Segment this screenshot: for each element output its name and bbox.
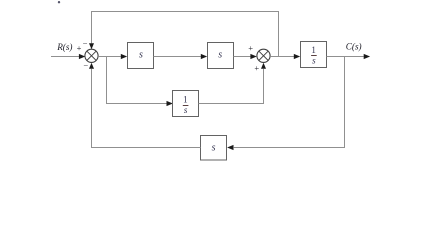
svg-text:1: 1 <box>311 45 316 55</box>
svg-text:s: s <box>184 105 188 115</box>
svg-text:+: + <box>248 43 253 53</box>
svg-text:1: 1 <box>183 95 188 105</box>
wire: input R(s) to summer S1 <box>51 56 79 58</box>
svg-text:−: − <box>83 38 88 48</box>
block H2: s (bottom feedback) <box>201 136 227 161</box>
wire: H2 output left then up into summer S1 bottom <box>92 69 201 148</box>
arrow into S1 from top <box>89 43 94 49</box>
wire: output pickoff down and left into block H2 <box>234 57 345 148</box>
stray dot (cropped glyph) top left <box>58 1 60 3</box>
block G2: s <box>208 43 234 69</box>
svg-text:R(s): R(s) <box>56 42 72 52</box>
svg-text:s: s <box>312 56 316 66</box>
summing junction S2 <box>257 49 270 62</box>
svg-text:s: s <box>139 50 143 61</box>
wire: summer S1 output to block G1 <box>98 56 121 58</box>
wire: top feedback run (pickoff after S2 up, left, down into S1) <box>92 12 279 57</box>
wire: summer S2 output to block G3 <box>270 56 294 58</box>
svg-text:+: + <box>254 63 259 73</box>
wire: G2 to summer S2 <box>234 56 251 58</box>
svg-text:+: + <box>77 43 82 53</box>
block H1: 1/s (middle path) <box>173 91 199 117</box>
block G3: 1/s <box>301 42 327 68</box>
svg-text:C(s): C(s) <box>346 41 362 51</box>
block G1: s <box>128 43 154 69</box>
svg-text:−: − <box>83 61 88 71</box>
wire: H1 output right then up into summer S2 <box>199 69 264 104</box>
svg-text:s: s <box>218 50 222 61</box>
summing junction S1 <box>85 49 98 62</box>
wire: G1 to G2 <box>154 56 202 58</box>
wire: pickoff after S1 down and right to block H1 <box>107 57 167 104</box>
wire: G3 output to C(s) <box>327 56 364 58</box>
svg-text:s: s <box>212 142 216 153</box>
